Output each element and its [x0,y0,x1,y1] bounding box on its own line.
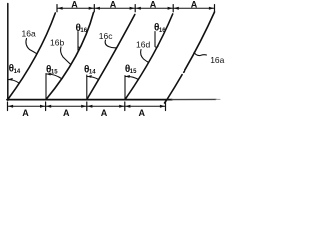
top dim arrow left of seg1 [57,7,62,10]
bottom dimension line [8,105,166,107]
baseline faint tail [216,98,220,100]
top dim arrows at tick2 [89,7,94,10]
bottom dim tick 5 [165,102,167,111]
track line L5 dot of dash-dot [183,71,186,74]
svg-text:16a: 16a [22,29,36,39]
top dim arrows at tick4 [168,7,173,10]
bottom dim tick 4 [124,102,126,111]
track line 16b (L2) [46,13,94,100]
track line 16c (L3) [87,15,135,100]
bottom dim arrow left end [8,105,13,108]
svg-text:A: A [110,0,117,9]
theta15 arc at base of L4 [125,76,138,79]
track line 16a (L1) [8,13,56,100]
theta16 arc at top of L4 [155,46,158,47]
top dim arrow right end [209,7,214,10]
theta14 vertical ref at base of L3 [86,75,88,100]
svg-text:A: A [101,108,108,118]
arrowhead on theta15 arc at L2 [46,73,51,76]
bottom dim tick 2 [45,102,47,111]
top dim tick 4 [172,5,174,12]
theta15 vertical ref at base of L4 [124,76,126,100]
svg-text:A: A [139,108,146,118]
theta16 vertical ref at top of L4 [154,32,156,47]
bottom dim tick 1 [7,102,9,111]
svg-text:A: A [63,108,70,118]
bottom dim arrows at tick3 [81,105,86,108]
top dimension line [57,7,215,9]
svg-text:16: 16 [80,28,87,34]
top dim tick 1 [56,5,58,12]
bottom dim arrow right end [160,105,165,108]
left vertical reference line [7,4,9,101]
svg-text:16c: 16c [99,31,113,41]
arrowhead on theta15 arc at L4 [125,75,130,78]
bottom dim arrows at tick4 [119,105,124,108]
svg-text:A: A [191,0,198,9]
arrowhead on theta14 arc at L3 [87,75,92,78]
svg-text:A: A [71,0,78,9]
leader for right 16a [194,52,207,55]
top dim arrows at tick3 [130,7,135,10]
track line 16d (L4) [125,14,173,100]
track line L5 top solid [185,12,215,70]
arrowhead on theta14 arc at L1 [8,78,13,81]
bottom dim tick 3 [86,102,88,111]
leader for 16d [141,50,149,63]
top dim tick 5 [214,5,216,12]
top dim tick 2 [93,5,95,12]
theta15 vertical ref at base of L2 [45,74,47,100]
svg-text:16d: 16d [136,39,150,49]
theta14 arc at base of L3 [87,76,99,79]
theta16 vertical ref at top of L2 [77,32,79,51]
svg-text:14: 14 [14,69,21,75]
leader for 16c [105,40,116,48]
theta15 arc at base of L2 [46,74,62,79]
baseline [7,99,172,101]
svg-text:16b: 16b [50,38,64,48]
bottom dim arrows at tick2 [40,105,45,108]
svg-text:A: A [22,108,29,118]
svg-text:15: 15 [130,69,137,75]
top dim tick 3 [134,5,136,12]
leader for 16a [26,39,37,54]
track line 16a repeat (L5) bottom solid with overshoot [165,75,183,103]
baseline faded right end [172,98,216,100]
svg-text:15: 15 [51,70,58,76]
svg-text:16a: 16a [210,55,224,65]
svg-text:A: A [150,0,157,9]
theta16 arc at top of L2 [78,46,81,47]
svg-text:14: 14 [89,70,96,76]
svg-text:16: 16 [159,28,166,34]
leader for 16b [61,47,71,65]
theta14 arc at base of L1 (left line is its vertical ref) [8,80,19,84]
